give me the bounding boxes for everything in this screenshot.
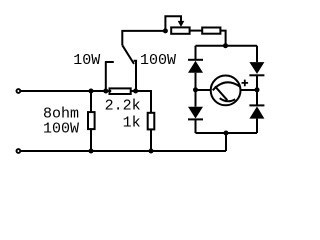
label + polarity xyxy=(242,80,249,87)
wire bridge right lower xyxy=(256,119,258,133)
switch SW1 contact 10W xyxy=(105,62,114,91)
wire meter left lead xyxy=(196,89,211,91)
terminal input top xyxy=(17,89,21,93)
wire 1k to bottom rail xyxy=(150,129,152,151)
diode D2 xyxy=(188,107,203,120)
node bridge left mid junction xyxy=(193,87,198,92)
meter M1 body xyxy=(211,76,241,106)
switch SW1 blade xyxy=(122,45,134,64)
wire top rail right xyxy=(131,91,151,113)
wire bridge bottom xyxy=(196,132,258,134)
resistor 8ohm xyxy=(88,112,95,129)
potentiometer R (rheostat) xyxy=(171,27,189,33)
node bridge top junction xyxy=(223,43,228,48)
resistor 1k xyxy=(148,113,155,130)
wire bridge left upper xyxy=(195,46,197,60)
wire bridge right middle xyxy=(256,75,258,105)
wire meter right lead xyxy=(241,89,258,91)
svg-text:10W: 10W xyxy=(73,52,100,69)
potentiometer wiper arrow xyxy=(178,21,185,27)
wire bridge left lower xyxy=(195,119,197,133)
wire 8ohm branch bottom xyxy=(90,129,92,151)
svg-text:2.2k: 2.2k xyxy=(105,98,141,115)
node 10W contact junction xyxy=(103,89,108,94)
svg-text:100W: 100W xyxy=(43,120,79,137)
node bridge bottom junction xyxy=(224,131,229,136)
wire top rail left xyxy=(21,90,112,92)
node 1k bottom junction xyxy=(149,149,154,154)
switch SW1 contact 100W xyxy=(134,61,138,91)
wire resistor to bridge top xyxy=(220,31,225,46)
wire bridge left middle xyxy=(195,73,197,107)
wire bridge right upper xyxy=(256,46,258,62)
resistor 2.2k xyxy=(110,88,131,94)
wire pot wiper loop xyxy=(165,16,181,31)
wire bridge bottom to rail xyxy=(225,133,227,151)
diode D4 xyxy=(249,105,264,118)
wire 8ohm branch top xyxy=(90,91,92,112)
node 8ohm top junction xyxy=(89,89,94,94)
node pot wiper junction xyxy=(163,28,168,33)
meter M1 scale arc xyxy=(213,82,240,90)
resistor series top xyxy=(202,28,220,34)
node 8ohm bottom junction xyxy=(89,149,94,154)
wire bridge top xyxy=(196,45,258,47)
svg-text:100W: 100W xyxy=(140,52,176,69)
diode D1 xyxy=(188,60,203,73)
meter M1 needle xyxy=(215,86,227,100)
wire bottom rail xyxy=(21,150,226,152)
terminal input bottom xyxy=(17,149,21,153)
meter M1 pivot arc xyxy=(220,98,236,101)
diode D3 xyxy=(249,62,264,75)
wire pot to resistor xyxy=(190,30,203,32)
wire switch pole to pot xyxy=(122,31,165,45)
svg-text:1k: 1k xyxy=(123,115,141,132)
node bridge right mid junction xyxy=(255,87,260,92)
node 100W contact junction xyxy=(133,89,138,94)
